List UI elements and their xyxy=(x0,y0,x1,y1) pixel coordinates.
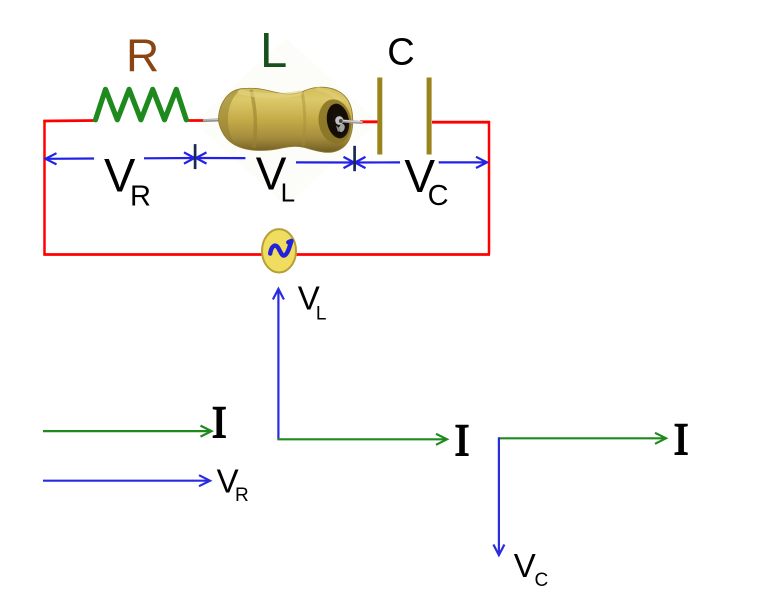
tick2 arrowheads xyxy=(344,157,355,168)
tick1 arrowheads xyxy=(184,152,195,163)
phasor 1: I arrow xyxy=(43,426,212,437)
dimension line VR segment xyxy=(46,152,488,168)
left dome shade xyxy=(218,89,241,146)
svg-text:C: C xyxy=(535,570,549,590)
dimension line VL segment xyxy=(197,157,246,159)
inductor L xyxy=(203,87,363,152)
left lead xyxy=(203,118,224,122)
right lead xyxy=(340,121,363,123)
wire stub inductor-capacitor xyxy=(360,120,378,123)
groove shading xyxy=(251,90,255,148)
svg-text:I: I xyxy=(212,398,227,448)
wire stub resistor-inductor xyxy=(187,119,205,122)
capacitor C plate 1 xyxy=(377,78,382,155)
phasor 2: I arrow xyxy=(277,434,447,445)
svg-text:L: L xyxy=(260,24,287,78)
wire right vertical xyxy=(488,121,491,255)
svg-text:R: R xyxy=(130,181,151,213)
wire bottom xyxy=(43,253,490,256)
svg-text:R: R xyxy=(235,485,249,506)
tick1 xyxy=(194,144,197,169)
top highlight xyxy=(240,92,300,96)
capacitor C plate 2 xyxy=(427,78,432,155)
left end arrowhead xyxy=(46,153,57,164)
wire capacitor to right xyxy=(432,121,490,124)
end cap xyxy=(315,97,354,146)
AC source xyxy=(262,229,296,272)
svg-text:I: I xyxy=(674,415,689,465)
eyelet xyxy=(335,116,343,125)
svg-text:L: L xyxy=(281,177,295,207)
wire top left xyxy=(43,119,95,122)
right end arrowhead xyxy=(476,157,487,168)
dimension line VC segment xyxy=(356,161,400,163)
svg-text:V: V xyxy=(514,547,536,584)
svg-text:C: C xyxy=(387,32,414,74)
resistor R xyxy=(96,89,187,120)
body silhouette xyxy=(218,87,352,152)
phasor 2: VL arrow (up) xyxy=(273,289,284,440)
inductor photo background diamond xyxy=(194,38,378,206)
phasor 3: I arrow xyxy=(499,433,666,444)
wire left vertical xyxy=(43,121,46,255)
phasor 3: VC arrow (down) xyxy=(493,437,504,555)
phasor 1: VR arrow xyxy=(43,475,210,486)
right flange rim highlight xyxy=(318,89,340,101)
tick2 xyxy=(353,146,356,171)
svg-text:R: R xyxy=(126,29,159,81)
svg-text:I: I xyxy=(455,415,470,465)
svg-text:L: L xyxy=(316,304,327,325)
svg-text:C: C xyxy=(428,180,449,212)
